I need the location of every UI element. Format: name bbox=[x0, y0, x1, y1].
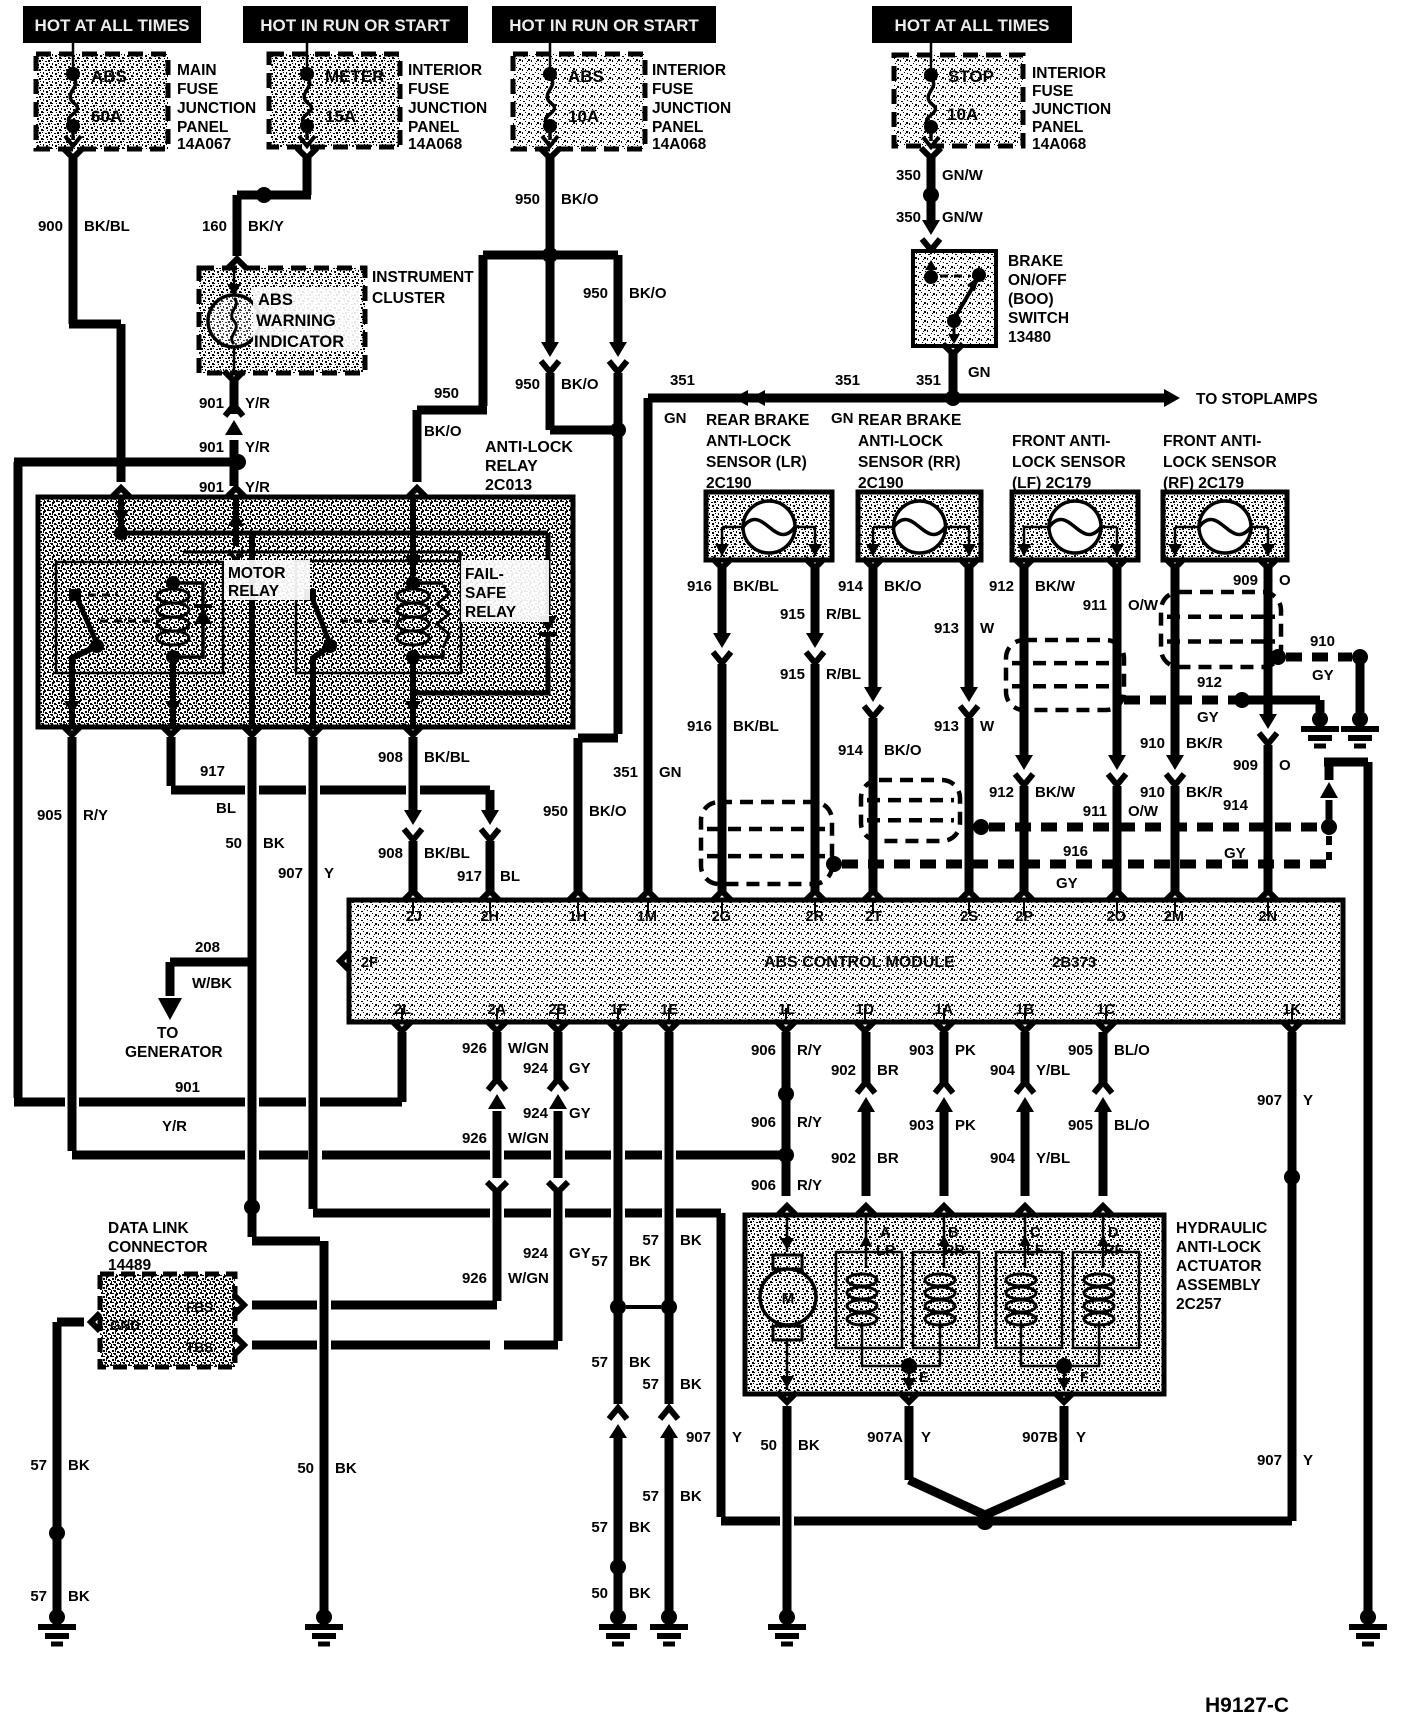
svg-text:CLUSTER: CLUSTER bbox=[372, 290, 445, 307]
svg-text:R/BL: R/BL bbox=[826, 666, 861, 683]
svg-text:FAIL-: FAIL- bbox=[465, 566, 504, 583]
label 50 BK (lower) bbox=[297, 1460, 357, 1477]
svg-text:JUNCTION: JUNCTION bbox=[408, 100, 487, 117]
svg-text:F: F bbox=[1080, 1370, 1089, 1386]
svg-text:14A068: 14A068 bbox=[652, 136, 707, 153]
label 906 R/Y (row3) bbox=[751, 1177, 822, 1194]
label 913 W (upper) bbox=[934, 620, 995, 637]
label 57 BK (DLC lower) bbox=[30, 1588, 90, 1605]
svg-text:916: 916 bbox=[687, 718, 712, 735]
svg-text:10A: 10A bbox=[947, 105, 978, 124]
label 950 BK/O (mid) bbox=[515, 376, 599, 393]
svg-text:902: 902 bbox=[831, 1062, 856, 1079]
svg-text:W: W bbox=[980, 718, 995, 735]
svg-text:RELAY: RELAY bbox=[228, 583, 280, 600]
wire 57 BK module 1E to ground bbox=[660, 1032, 678, 1611]
label 351 GN (module entry) bbox=[613, 764, 682, 781]
label 57 BK (1F lower) bbox=[591, 1519, 651, 1536]
wire 350 GN/W stop fuse to BOO switch bbox=[921, 148, 941, 250]
svg-text:2T: 2T bbox=[865, 909, 882, 925]
label 909 O (upper) bbox=[1233, 572, 1291, 589]
shield LR sensor wires bbox=[701, 802, 832, 884]
wire 915 R/BL LR sensor to module 2R bbox=[805, 558, 825, 901]
svg-text:GENERATOR: GENERATOR bbox=[125, 1044, 223, 1061]
svg-text:1C: 1C bbox=[1096, 1002, 1115, 1018]
svg-text:901: 901 bbox=[199, 479, 224, 496]
svg-text:RF: RF bbox=[1104, 1243, 1123, 1259]
label 912 BK/W (lower) bbox=[989, 784, 1076, 801]
svg-text:905: 905 bbox=[1068, 1042, 1093, 1059]
svg-text:208: 208 bbox=[195, 939, 220, 956]
svg-text:903: 903 bbox=[909, 1042, 934, 1059]
label 950 BK/O (relay branch) bbox=[424, 385, 462, 440]
svg-text:Y: Y bbox=[921, 1429, 931, 1446]
label 906 R/Y (row1) bbox=[751, 1042, 822, 1059]
wire 916 BK/BL LR sensor to module 2G bbox=[712, 558, 732, 901]
wire 900 BK/BL fuse to anti-lock relay bbox=[63, 148, 131, 498]
ground for 912 drain bbox=[1301, 711, 1339, 746]
svg-text:ANTI-LOCK: ANTI-LOCK bbox=[706, 433, 792, 450]
svg-text:Y: Y bbox=[1303, 1092, 1313, 1109]
svg-text:57: 57 bbox=[591, 1253, 608, 1270]
svg-text:Y/BL: Y/BL bbox=[1036, 1062, 1070, 1079]
ABS control module 2B373 bbox=[340, 900, 1343, 1022]
junction dot 351 bus bbox=[945, 390, 961, 406]
svg-text:BK/R: BK/R bbox=[1186, 735, 1223, 752]
svg-text:13480: 13480 bbox=[1008, 329, 1051, 346]
label 208 W/BK bbox=[192, 939, 232, 992]
wire 907 Y module 1K to bottom bus bbox=[1288, 1032, 1297, 1181]
svg-text:907A: 907A bbox=[867, 1429, 903, 1446]
label 57 BK (1F upper) bbox=[591, 1253, 651, 1270]
svg-text:TO STOPLAMPS: TO STOPLAMPS bbox=[1196, 391, 1318, 408]
diagram id H9127-C bbox=[1205, 1694, 1289, 1717]
svg-text:1M: 1M bbox=[637, 909, 657, 925]
svg-text:926: 926 bbox=[462, 1130, 487, 1147]
ground actuator motor bbox=[768, 1609, 806, 1644]
label 912 GY bbox=[1197, 674, 1222, 726]
svg-text:SENSOR (LR): SENSOR (LR) bbox=[706, 454, 807, 471]
label 916 BK/BL (lower) bbox=[687, 718, 779, 735]
svg-text:2M: 2M bbox=[1164, 909, 1184, 925]
svg-text:BK: BK bbox=[629, 1253, 651, 1270]
svg-text:924: 924 bbox=[523, 1105, 549, 1122]
svg-text:2F: 2F bbox=[361, 955, 378, 971]
svg-text:904: 904 bbox=[990, 1150, 1016, 1167]
svg-text:913: 913 bbox=[934, 718, 959, 735]
svg-text:914: 914 bbox=[1223, 797, 1249, 814]
label 907A Y bbox=[867, 1429, 931, 1446]
junction dot 950 join bbox=[610, 422, 626, 438]
label 907 Y (center bottom) bbox=[686, 1429, 742, 1446]
svg-text:O/W: O/W bbox=[1128, 597, 1159, 614]
svg-text:924: 924 bbox=[523, 1245, 549, 1262]
splice dot 350 bbox=[923, 187, 939, 203]
svg-text:A: A bbox=[880, 1225, 891, 1241]
svg-text:MAIN: MAIN bbox=[177, 62, 217, 79]
svg-text:GND: GND bbox=[110, 1318, 140, 1333]
svg-text:D: D bbox=[1108, 1225, 1118, 1241]
svg-text:BK/BL: BK/BL bbox=[424, 845, 470, 862]
svg-text:14A068: 14A068 bbox=[408, 136, 463, 153]
svg-text:Y/R: Y/R bbox=[245, 395, 270, 412]
svg-text:901: 901 bbox=[199, 439, 224, 456]
svg-text:HOT IN RUN OR START: HOT IN RUN OR START bbox=[260, 16, 450, 35]
ground 50 BK (center-left) bbox=[305, 1609, 343, 1644]
svg-text:BK/BL: BK/BL bbox=[424, 749, 470, 766]
label 57 BK (DLC upper) bbox=[30, 1457, 90, 1474]
svg-text:912: 912 bbox=[989, 784, 1014, 801]
fuse ABS 10A in interior fuse junction panel bbox=[513, 43, 645, 149]
label 50 BK (motor) bbox=[760, 1437, 820, 1454]
svg-text:57: 57 bbox=[642, 1376, 659, 1393]
front anti-lock sensor LF 2C179 bbox=[1012, 433, 1138, 560]
label 57 BK (1F mid) bbox=[591, 1354, 651, 1371]
svg-text:15A: 15A bbox=[325, 107, 356, 126]
label 351 (BOO) bbox=[916, 372, 941, 389]
svg-text:909: 909 bbox=[1233, 572, 1258, 589]
svg-text:2L: 2L bbox=[394, 1002, 411, 1018]
svg-text:BK/O: BK/O bbox=[884, 742, 922, 759]
svg-text:ABS: ABS bbox=[258, 291, 293, 309]
svg-text:BK: BK bbox=[335, 1460, 357, 1477]
svg-text:57: 57 bbox=[30, 1588, 47, 1605]
svg-text:BL/O: BL/O bbox=[1114, 1117, 1150, 1134]
svg-text:FRONT ANTI-: FRONT ANTI- bbox=[1163, 433, 1261, 450]
label INTERIOR FUSE JUNCTION PANEL 14A068 (stop) bbox=[1032, 65, 1111, 153]
svg-text:913: 913 bbox=[934, 620, 959, 637]
label ANTI-LOCK RELAY 2C013 bbox=[485, 439, 573, 494]
svg-text:MOTOR: MOTOR bbox=[228, 565, 285, 582]
svg-text:SWITCH: SWITCH bbox=[1008, 310, 1069, 327]
fuse METER 15A in interior fuse junction panel bbox=[269, 43, 400, 147]
svg-text:351: 351 bbox=[613, 764, 638, 781]
svg-text:GN: GN bbox=[664, 410, 687, 427]
label 907B Y bbox=[1022, 1429, 1086, 1446]
wire 904 Y/BL module 1B to actuator C bbox=[1015, 1032, 1035, 1216]
svg-text:911: 911 bbox=[1083, 597, 1107, 614]
label 160 BK/Y bbox=[202, 218, 284, 235]
rear brake anti-lock sensor RR 2C190 bbox=[858, 412, 981, 560]
svg-text:1B: 1B bbox=[1015, 1002, 1034, 1018]
svg-text:10A: 10A bbox=[568, 107, 599, 126]
svg-text:910: 910 bbox=[1140, 735, 1165, 752]
svg-text:GY: GY bbox=[1056, 875, 1078, 892]
label 915 R/BL (upper) bbox=[780, 606, 861, 623]
svg-text:917: 917 bbox=[200, 763, 225, 780]
svg-text:BK: BK bbox=[68, 1457, 90, 1474]
svg-text:1L: 1L bbox=[778, 1002, 795, 1018]
wire 905 R/Y relay down and right to 906 junction bbox=[72, 737, 782, 1155]
svg-text:HYDRAULIC: HYDRAULIC bbox=[1176, 1220, 1267, 1237]
svg-text:JUNCTION: JUNCTION bbox=[652, 100, 731, 117]
wire 50 BK relay down to ground bbox=[252, 737, 324, 1611]
svg-text:Y: Y bbox=[324, 865, 334, 882]
wire 160 BK/Y meter fuse to instrument cluster bbox=[227, 148, 317, 269]
label 50 BK (1F bottom) bbox=[591, 1585, 651, 1602]
wire 910 BK/R RF sensor to module 2M bbox=[1165, 558, 1185, 901]
svg-text:BK/BL: BK/BL bbox=[84, 218, 130, 235]
svg-text:Y/R: Y/R bbox=[162, 1118, 187, 1135]
svg-text:1K: 1K bbox=[1282, 1002, 1301, 1018]
fuse ABS 60A in main fuse junction panel bbox=[36, 43, 168, 149]
label 908 BK/BL (lower) bbox=[378, 845, 470, 862]
svg-text:BK/O: BK/O bbox=[589, 803, 627, 820]
svg-text:2S: 2S bbox=[960, 909, 978, 925]
label 901 Y/R (bus) bbox=[162, 1079, 200, 1135]
anti-lock relay 2C013 with motor relay and fail-safe relay bbox=[38, 497, 573, 727]
svg-text:REAR BRAKE: REAR BRAKE bbox=[858, 412, 961, 429]
svg-text:RELAY: RELAY bbox=[465, 604, 517, 621]
label 351 GN (left end) bbox=[664, 372, 695, 427]
svg-text:50: 50 bbox=[225, 835, 242, 852]
svg-text:926: 926 bbox=[462, 1040, 487, 1057]
label 901 Y/R (lower) bbox=[199, 479, 270, 496]
label 350 GN/W (upper) bbox=[896, 167, 984, 184]
instrument cluster box with ABS warning indicator bbox=[199, 268, 365, 373]
svg-text:GN/W: GN/W bbox=[942, 209, 984, 226]
wire 901 branch to left and down bbox=[14, 462, 234, 1098]
wire 902 BR module 1D to actuator A bbox=[856, 1032, 876, 1216]
svg-text:E: E bbox=[919, 1370, 929, 1386]
svg-text:1H: 1H bbox=[568, 909, 587, 925]
svg-text:PK: PK bbox=[955, 1117, 976, 1134]
svg-text:ANTI-LOCK: ANTI-LOCK bbox=[858, 433, 944, 450]
svg-text:950: 950 bbox=[434, 385, 459, 402]
label DATA LINK CONNECTOR 14469 bbox=[108, 1220, 208, 1274]
svg-text:950: 950 bbox=[543, 803, 568, 820]
ground module 1E bbox=[650, 1609, 688, 1644]
label 917 BL (upper) bbox=[200, 763, 236, 817]
svg-text:GN: GN bbox=[831, 410, 854, 427]
svg-text:O: O bbox=[1279, 572, 1291, 589]
svg-text:RR: RR bbox=[944, 1243, 965, 1259]
brake on/off BOO switch 13480 bbox=[913, 251, 996, 346]
wire 950 BK/O left branch to relay bbox=[407, 255, 550, 498]
svg-text:INTERIOR: INTERIOR bbox=[652, 62, 726, 79]
wire 57 BK DLC GND to ground bbox=[57, 1313, 100, 1611]
power header HOT AT ALL TIMES (left) bbox=[23, 6, 201, 43]
label 910 BK/R (lower) bbox=[1140, 784, 1223, 801]
svg-text:W: W bbox=[980, 620, 995, 637]
svg-text:160: 160 bbox=[202, 218, 227, 235]
shield drain 914 GY bus bbox=[973, 762, 1368, 835]
svg-text:GN/W: GN/W bbox=[942, 167, 984, 184]
svg-text:REAR BRAKE: REAR BRAKE bbox=[706, 412, 809, 429]
svg-text:ON/OFF: ON/OFF bbox=[1008, 272, 1067, 289]
svg-text:916: 916 bbox=[1063, 843, 1088, 860]
svg-text:57: 57 bbox=[30, 1457, 47, 1474]
svg-text:PANEL: PANEL bbox=[1032, 119, 1083, 136]
wire 912 BK/W LF sensor to module 2P bbox=[1014, 558, 1034, 901]
svg-text:INTERIOR: INTERIOR bbox=[1032, 65, 1106, 82]
svg-text:BK: BK bbox=[798, 1437, 820, 1454]
svg-text:GN: GN bbox=[968, 364, 991, 381]
svg-text:H9127-C: H9127-C bbox=[1205, 1694, 1289, 1717]
wire 903 PK module 1A to actuator B bbox=[934, 1032, 954, 1216]
svg-text:ANTI-LOCK: ANTI-LOCK bbox=[1176, 1239, 1262, 1256]
label 911 O/W (upper) bbox=[1083, 597, 1159, 614]
svg-text:1E: 1E bbox=[660, 1002, 678, 1018]
svg-text:906: 906 bbox=[751, 1114, 776, 1131]
wire 901 Y/R module 2L to left riser bbox=[14, 1032, 402, 1102]
wire 351 GN stoplamps bus bbox=[638, 389, 1180, 901]
svg-text:GY: GY bbox=[569, 1245, 591, 1262]
svg-text:C: C bbox=[1030, 1225, 1041, 1241]
svg-text:BL/O: BL/O bbox=[1114, 1042, 1150, 1059]
wire 57 bridge bbox=[626, 1305, 661, 1309]
wire 950 BK/O center branch bbox=[541, 255, 559, 430]
svg-text:LF: LF bbox=[1026, 1243, 1044, 1259]
label 906 R/Y (row2) bbox=[751, 1114, 822, 1131]
svg-text:905: 905 bbox=[37, 807, 62, 824]
label 902 BR (row2) bbox=[831, 1150, 899, 1167]
wire 913 W RR sensor to module 2S bbox=[959, 558, 979, 901]
label 905 R/Y bbox=[37, 807, 108, 824]
svg-text:907: 907 bbox=[1257, 1092, 1282, 1109]
svg-text:14A067: 14A067 bbox=[177, 136, 231, 153]
svg-text:R/Y: R/Y bbox=[797, 1042, 822, 1059]
svg-text:2C190: 2C190 bbox=[706, 475, 752, 492]
svg-text:917: 917 bbox=[457, 868, 482, 885]
svg-text:(LF) 2C179: (LF) 2C179 bbox=[1012, 475, 1092, 492]
label HYDRAULIC ANTI-LOCK ACTUATOR ASSEMBLY 2C257 bbox=[1176, 1220, 1267, 1313]
svg-text:BK: BK bbox=[629, 1585, 651, 1602]
svg-text:ANTI-LOCK: ANTI-LOCK bbox=[485, 439, 573, 456]
shield drain 912 GY to ground bbox=[1124, 692, 1320, 712]
svg-text:902: 902 bbox=[831, 1150, 856, 1167]
svg-text:900: 900 bbox=[38, 218, 63, 235]
svg-text:GY: GY bbox=[1224, 845, 1246, 862]
svg-text:BK/O: BK/O bbox=[424, 423, 462, 440]
svg-text:950: 950 bbox=[583, 285, 608, 302]
wire 50 BK actuator motor to ground bbox=[777, 1392, 797, 1611]
svg-text:ABS: ABS bbox=[91, 67, 127, 86]
junction dot 57 bridge left bbox=[610, 1299, 626, 1315]
svg-text:50: 50 bbox=[760, 1437, 777, 1454]
wire 57 BK module 1F to ground bbox=[609, 1032, 627, 1611]
svg-text:SAFE: SAFE bbox=[465, 585, 506, 602]
label INTERIOR FUSE JUNCTION PANEL 14A068 (meter) bbox=[408, 62, 487, 153]
junction dot 906/905 bbox=[778, 1147, 794, 1163]
svg-text:ACTUATOR: ACTUATOR bbox=[1176, 1258, 1262, 1275]
label 907 Y (1K upper) bbox=[1257, 1092, 1313, 1109]
label 50 BK (upper) bbox=[225, 835, 285, 852]
svg-text:DATA LINK: DATA LINK bbox=[108, 1220, 189, 1237]
label INSTRUMENT CLUSTER bbox=[372, 269, 474, 307]
svg-text:LOCK SENSOR: LOCK SENSOR bbox=[1012, 454, 1126, 471]
svg-text:FRONT ANTI-: FRONT ANTI- bbox=[1012, 433, 1110, 450]
svg-text:HOT AT ALL TIMES: HOT AT ALL TIMES bbox=[35, 16, 190, 35]
svg-text:924: 924 bbox=[523, 1060, 549, 1077]
label 351 GN (mid) bbox=[831, 372, 860, 427]
svg-text:BK/O: BK/O bbox=[629, 285, 667, 302]
svg-text:57: 57 bbox=[591, 1354, 608, 1371]
svg-text:2R: 2R bbox=[805, 909, 824, 925]
svg-text:M: M bbox=[782, 1290, 795, 1307]
svg-text:2H: 2H bbox=[480, 909, 499, 925]
svg-text:1F: 1F bbox=[610, 1002, 627, 1018]
svg-text:R/Y: R/Y bbox=[797, 1177, 822, 1194]
svg-text:1D: 1D bbox=[855, 1002, 874, 1018]
svg-text:351: 351 bbox=[916, 372, 941, 389]
label 57 BK (1E upper) bbox=[642, 1232, 702, 1249]
svg-text:JUNCTION: JUNCTION bbox=[177, 100, 256, 117]
svg-text:R/Y: R/Y bbox=[797, 1114, 822, 1131]
svg-text:BL: BL bbox=[500, 868, 520, 885]
svg-text:906: 906 bbox=[751, 1042, 776, 1059]
svg-text:INDICATOR: INDICATOR bbox=[254, 333, 344, 351]
wire 907 Y relay down, across and to bottom bus bbox=[313, 737, 1292, 1521]
svg-text:910: 910 bbox=[1140, 784, 1165, 801]
svg-text:57: 57 bbox=[591, 1519, 608, 1536]
label 901 Y/R (upper) bbox=[199, 395, 270, 412]
power header HOT IN RUN OR START (third) bbox=[492, 6, 716, 43]
svg-text:BK/BL: BK/BL bbox=[733, 718, 779, 735]
splice dot on wire 160 bbox=[256, 187, 272, 203]
label MAIN FUSE JUNCTION PANEL 14A067 bbox=[177, 62, 256, 153]
svg-text:907: 907 bbox=[1257, 1452, 1282, 1469]
label 950 BK/O (module entry) bbox=[543, 803, 627, 820]
svg-text:SENSOR (RR): SENSOR (RR) bbox=[858, 454, 960, 471]
svg-text:W/GN: W/GN bbox=[508, 1270, 549, 1287]
power header HOT IN RUN OR START (second) bbox=[243, 6, 468, 43]
svg-text:Y/R: Y/R bbox=[245, 439, 270, 456]
fuse STOP 10A in interior fuse junction panel bbox=[894, 43, 1023, 147]
wire 905 BL/O module 1C to actuator D bbox=[1093, 1032, 1113, 1216]
wire 901 Y/R cluster to anti-lock relay bbox=[224, 371, 246, 498]
svg-text:950: 950 bbox=[515, 376, 540, 393]
label 57 BK (1E mid) bbox=[642, 1376, 702, 1393]
svg-text:14489: 14489 bbox=[108, 1257, 151, 1274]
label 904 Y/BL (row1) bbox=[990, 1062, 1070, 1079]
svg-text:1A: 1A bbox=[934, 1002, 953, 1018]
label 57 BK (1E lower) bbox=[642, 1488, 702, 1505]
svg-text:PK: PK bbox=[955, 1042, 976, 1059]
svg-text:2O: 2O bbox=[1107, 909, 1126, 925]
wire 906 R/Y module 1L to hydraulic actuator bbox=[777, 1032, 797, 1216]
svg-text:914: 914 bbox=[838, 578, 864, 595]
wire 950 BK/O from fuse (upper) bbox=[540, 148, 560, 255]
svg-text:BK/O: BK/O bbox=[561, 191, 599, 208]
svg-text:BR: BR bbox=[877, 1150, 899, 1167]
svg-text:915: 915 bbox=[780, 666, 805, 683]
svg-text:910: 910 bbox=[1310, 633, 1335, 650]
svg-text:57: 57 bbox=[642, 1488, 659, 1505]
svg-text:BK: BK bbox=[68, 1588, 90, 1605]
label 900 BK/BL bbox=[38, 218, 130, 235]
wire 950 BK/O right branch bbox=[550, 255, 627, 901]
label 350 GN/W (lower) bbox=[896, 209, 984, 226]
svg-text:916: 916 bbox=[687, 578, 712, 595]
svg-text:O: O bbox=[1279, 757, 1291, 774]
wire 917 BL relay to module 2H bbox=[171, 737, 500, 901]
svg-text:915: 915 bbox=[780, 606, 805, 623]
power header HOT AT ALL TIMES (right) bbox=[872, 6, 1072, 43]
svg-text:STOP: STOP bbox=[948, 67, 994, 86]
junction dot 901/dash bbox=[230, 454, 246, 470]
svg-text:BL: BL bbox=[216, 800, 236, 817]
svg-text:912: 912 bbox=[1197, 674, 1222, 691]
label 914 BK/O (lower) bbox=[838, 742, 922, 759]
svg-text:GY: GY bbox=[1197, 709, 1219, 726]
wire join 950 to module 1H bbox=[550, 426, 618, 435]
label 910 GY bbox=[1310, 633, 1335, 684]
svg-text:RELAY: RELAY bbox=[485, 458, 538, 475]
svg-text:907: 907 bbox=[686, 1429, 711, 1446]
svg-text:2N: 2N bbox=[1258, 909, 1277, 925]
label 916 GY bbox=[1056, 843, 1088, 892]
